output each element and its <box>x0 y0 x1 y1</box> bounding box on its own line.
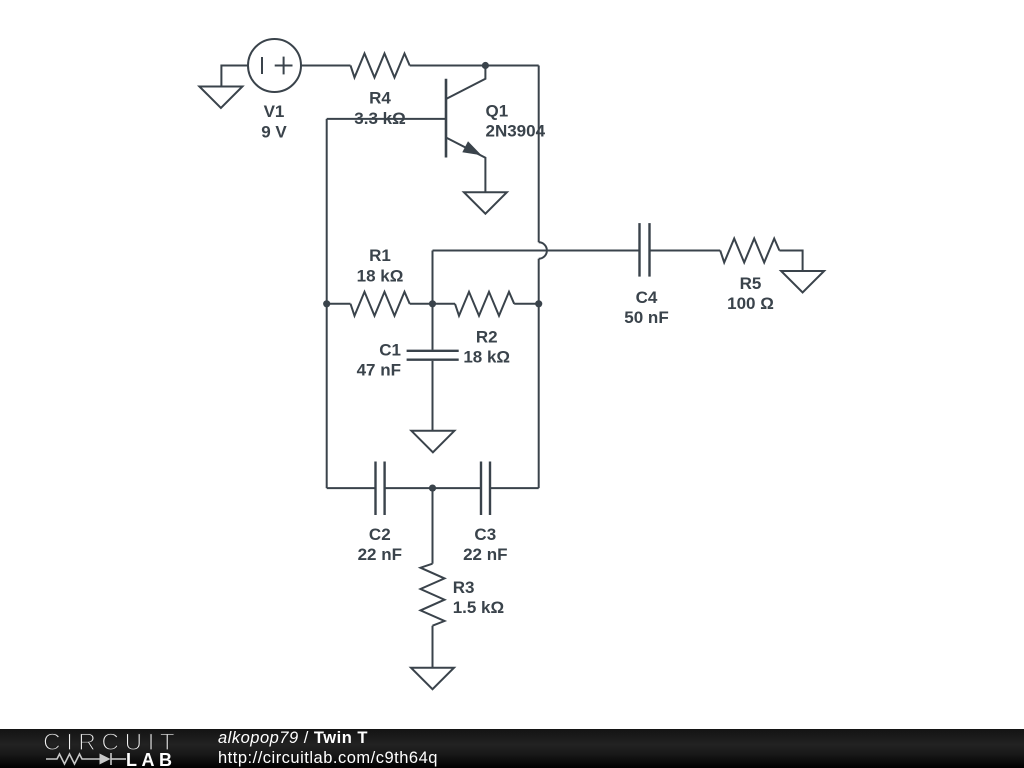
capacitor C3 <box>481 462 490 516</box>
wire V1 negative terminal to ground <box>221 66 248 87</box>
svg-text:Q1: Q1 <box>486 101 509 120</box>
voltage source V1 <box>248 39 301 92</box>
svg-text:22 nF: 22 nF <box>358 545 402 564</box>
node collector junction <box>482 62 489 69</box>
svg-text:C4: C4 <box>636 288 658 307</box>
ground at Q1 emitter <box>464 192 507 214</box>
svg-text:3.3 kΩ: 3.3 kΩ <box>354 109 405 128</box>
svg-text:18 kΩ: 18 kΩ <box>357 267 404 286</box>
label Q1 2N3904 <box>486 101 546 140</box>
svg-text:9 V: 9 V <box>261 122 287 141</box>
wire R3 to ground <box>432 626 434 668</box>
label R3 1.5 kOhm <box>453 578 504 617</box>
svg-text:V1: V1 <box>264 102 285 121</box>
label C3 22 nF <box>463 525 507 564</box>
svg-text:R3: R3 <box>453 578 475 597</box>
ground at R5 <box>781 271 824 293</box>
resistor R2 <box>455 292 514 316</box>
wire base to left rail <box>327 118 446 120</box>
node R2 right junction <box>535 300 542 307</box>
svg-text:LAB: LAB <box>126 750 177 768</box>
svg-text:22 nF: 22 nF <box>463 545 507 564</box>
ground at C1 <box>411 431 454 453</box>
wire left rail to R1 <box>327 303 351 305</box>
svg-text:1.5 kΩ: 1.5 kΩ <box>453 598 504 617</box>
bottom rail left segment <box>327 487 376 489</box>
wire center node to R2 <box>433 303 456 305</box>
resistor R4 <box>351 54 410 78</box>
capacitor C4 <box>640 223 650 277</box>
wire right vertical lower (hop to bottom rail) <box>538 259 540 488</box>
svg-text:R4: R4 <box>369 89 391 108</box>
wire R5 to ground <box>779 251 802 272</box>
svg-text:2N3904: 2N3904 <box>486 122 546 141</box>
wire R4 to collector node <box>410 65 539 67</box>
node R1 left junction <box>323 300 330 307</box>
svg-text:18 kΩ: 18 kΩ <box>463 347 510 366</box>
wire R2 to right rail <box>514 303 539 305</box>
wire right vertical upper (collector rail down to hop) <box>538 66 540 243</box>
wire output horizontal to C4 <box>433 250 640 252</box>
label C2 22 nF <box>358 525 402 564</box>
svg-text:C2: C2 <box>369 525 391 544</box>
node center junction <box>429 300 436 307</box>
svg-text:R1: R1 <box>369 246 391 265</box>
resistor R1 <box>351 292 410 316</box>
wire hop over horizontal output wire <box>539 242 547 258</box>
svg-text:R2: R2 <box>476 327 498 346</box>
node bottom junction <box>429 485 436 492</box>
label R2 18 kOhm <box>463 327 510 366</box>
label C4 50 nF <box>624 288 668 327</box>
svg-text:47 nF: 47 nF <box>357 361 401 380</box>
label R4 3.3 kOhm <box>354 89 405 129</box>
wire R1 to center node <box>410 303 433 305</box>
label C1 47 nF <box>357 341 401 380</box>
resistor R3 <box>421 564 445 626</box>
svg-text:50 nF: 50 nF <box>624 308 668 327</box>
resistor R5 <box>720 239 779 263</box>
wire bottom node to R3 <box>432 488 434 564</box>
wire center vertical (output corner down to C1) <box>432 251 434 350</box>
bottom rail right segment <box>490 487 539 489</box>
svg-text:C3: C3 <box>474 525 496 544</box>
wire left vertical rail <box>326 119 328 488</box>
ground at R3 <box>411 668 454 690</box>
svg-text:C1: C1 <box>379 341 401 360</box>
capacitor C1 <box>407 351 459 360</box>
ground at V1 <box>199 87 242 109</box>
wire C4 to R5 <box>650 250 721 252</box>
label V1 9 V <box>261 102 287 141</box>
capacitor C2 <box>376 462 385 516</box>
transistor Q1 2N3904 <box>446 66 485 193</box>
bottom rail middle segment <box>385 487 481 489</box>
label R1 18 kOhm <box>357 246 404 285</box>
wire C1 to ground <box>432 361 434 431</box>
svg-text:R5: R5 <box>740 274 762 293</box>
wire V1 to R4 <box>301 65 351 67</box>
svg-text:100 Ω: 100 Ω <box>727 294 774 313</box>
label R5 100 Ohm <box>727 274 774 313</box>
